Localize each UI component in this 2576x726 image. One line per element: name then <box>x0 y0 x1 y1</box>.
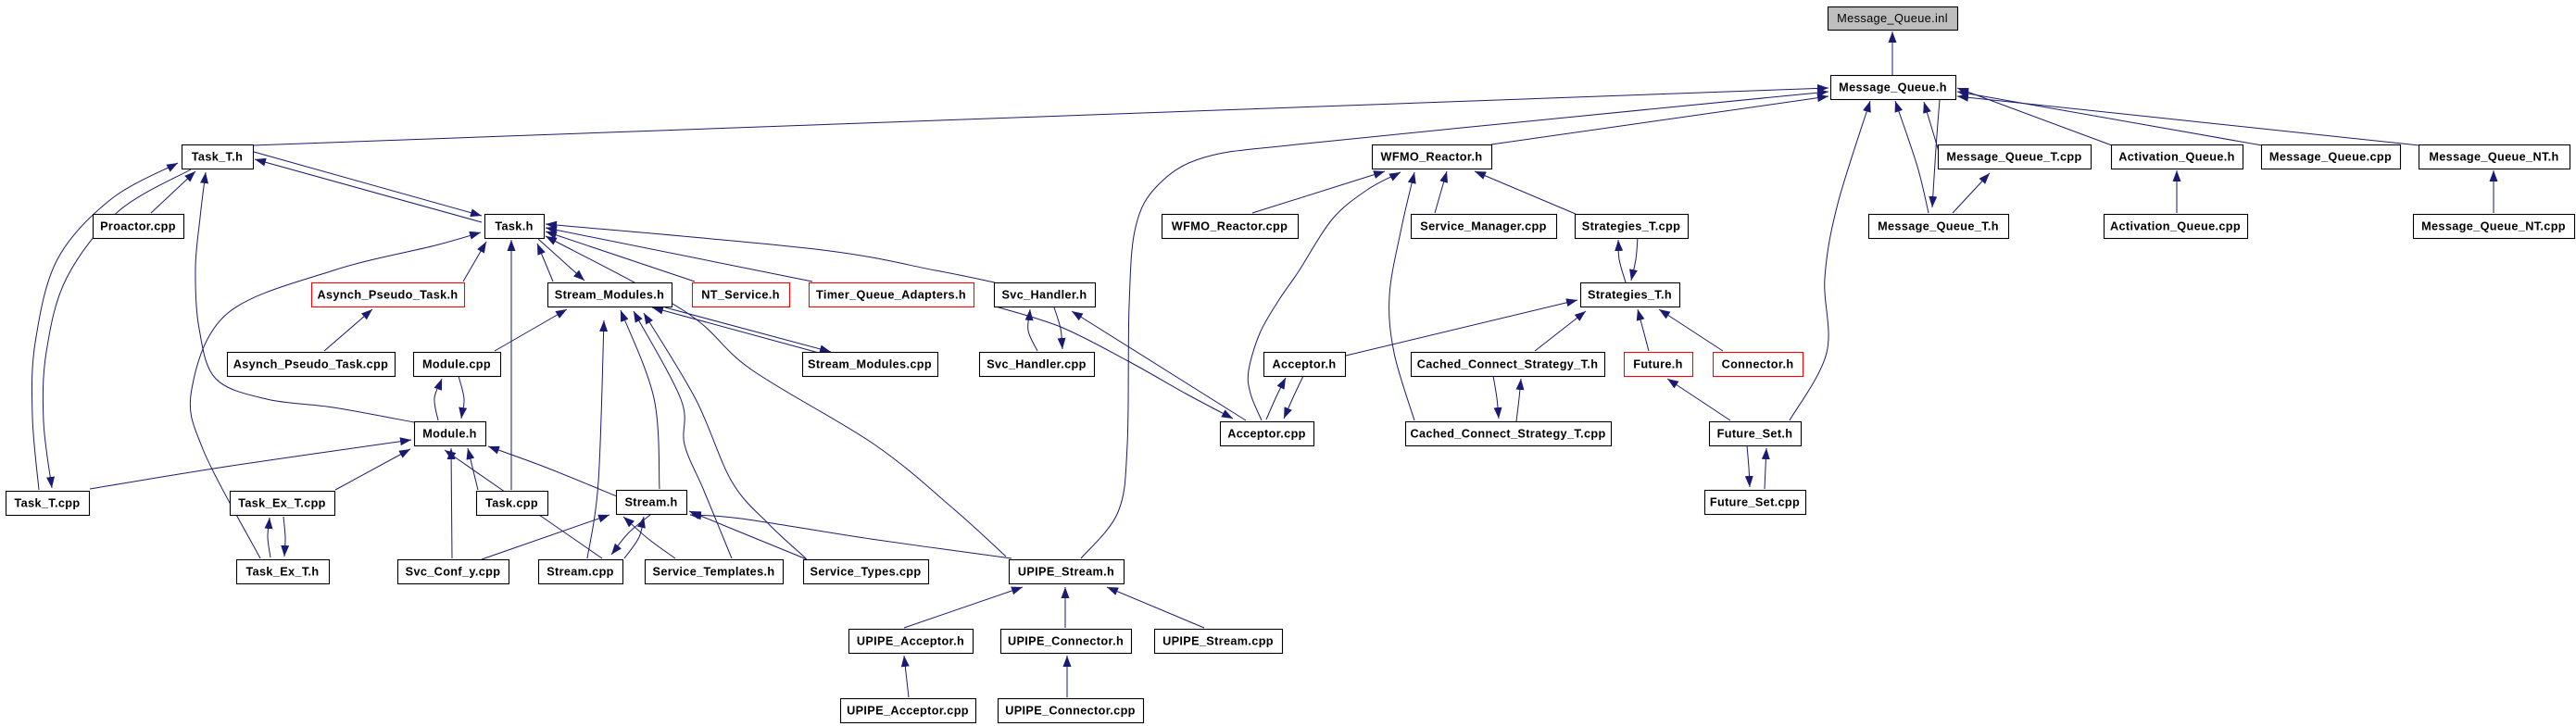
svg-text:Cached_Connect_Strategy_T.h: Cached_Connect_Strategy_T.h <box>1417 358 1599 371</box>
node Message_Queue.inl <box>1828 7 1958 31</box>
svg-text:Module.cpp: Module.cpp <box>422 358 491 371</box>
svg-text:Future.h: Future.h <box>1633 358 1683 371</box>
svg-text:Service_Templates.h: Service_Templates.h <box>653 566 775 579</box>
svg-text:Svc_Handler.h: Svc_Handler.h <box>1002 289 1087 302</box>
wire Task.cpp to Module.h <box>468 448 478 490</box>
wire Service_Types.cpp to Stream.h <box>689 511 807 559</box>
svg-text:Proactor.cpp: Proactor.cpp <box>100 220 176 233</box>
node Asynch_Pseudo_Task.h <box>312 283 465 307</box>
node Service_Templates.h <box>646 560 784 584</box>
wire Timer_Queue_Adapters.h to Task.h <box>546 228 812 282</box>
wire Cached pair B <box>1516 379 1521 421</box>
node Future_Set.h <box>1710 422 1802 446</box>
wire Message_Queue_NT.cpp to Message_Queue_NT.h <box>2493 170 2494 213</box>
wire Cached_Connect_Strategy_T.cpp to WFMO_Reactor.h <box>1389 172 1414 420</box>
wire Task_Ex_T.h to Task.h <box>190 232 481 558</box>
wire Stream_Modules.h pair to Task.h <box>537 244 553 282</box>
svg-text:Future_Set.h: Future_Set.h <box>1717 428 1793 441</box>
node NT_Service.h <box>693 283 790 307</box>
svg-text:UPIPE_Acceptor.h: UPIPE_Acceptor.h <box>857 635 964 648</box>
wire Task_T.cpp to Module.h <box>90 440 411 489</box>
svg-text:Strategies_T.cpp: Strategies_T.cpp <box>1582 220 1680 233</box>
node Stream_Modules.h <box>548 283 672 307</box>
svg-text:Task_Ex_T.h: Task_Ex_T.h <box>245 566 319 579</box>
svg-text:Module.h: Module.h <box>422 428 476 441</box>
wire Message_Queue_T.h to Message_Queue_T.cpp <box>1953 173 1990 213</box>
wire Svc_Handler.h to Acceptor.cpp <box>996 307 1233 419</box>
wire Svc_Handler.h to Svc_Handler.cpp <box>1054 307 1062 349</box>
node UPIPE_Connector.cpp <box>999 699 1144 723</box>
wire Task_Ex_T.h pair to Task_Ex_T.cpp <box>268 518 270 557</box>
svg-text:Task_Ex_T.cpp: Task_Ex_T.cpp <box>238 497 326 510</box>
svg-text:UPIPE_Stream.h: UPIPE_Stream.h <box>1018 566 1114 579</box>
node Proactor.cpp <box>94 215 184 239</box>
wire Proactor.cpp to Task_T.h <box>151 171 195 213</box>
node UPIPE_Acceptor.cpp <box>841 699 976 723</box>
wire Task_T.h to Task_T.cpp <box>43 169 191 488</box>
node Message_Queue.cpp <box>2262 145 2401 169</box>
svg-text:Task_T.cpp: Task_T.cpp <box>15 497 81 510</box>
node Service_Types.cpp <box>804 560 929 584</box>
svg-text:Task.h: Task.h <box>495 220 533 233</box>
node Module.cpp <box>414 353 501 377</box>
wire Task_T.h to Message_Queue.h <box>252 88 1828 145</box>
node Cached_Connect_Strategy_T.h <box>1412 353 1605 377</box>
wire Svc_Conf_y.cpp to Stream.h <box>482 515 609 559</box>
node Service_Manager.cpp <box>1412 215 1557 239</box>
node Acceptor.cpp <box>1221 422 1314 446</box>
node Task_Ex_T.h <box>237 560 330 584</box>
node Message_Queue_NT.cpp <box>2414 215 2575 239</box>
svg-text:Message_Queue_T.h: Message_Queue_T.h <box>1878 220 1999 233</box>
wire WFMO_Reactor.h to Message_Queue.h <box>1491 96 1828 144</box>
wire Svc_Conf_y.cpp to Module.h <box>451 448 452 558</box>
wire Task_Ex_T.cpp to Module.h <box>335 449 410 490</box>
svg-text:Acceptor.cpp: Acceptor.cpp <box>1227 428 1306 441</box>
wire Module.h pair to Module.cpp <box>434 379 442 420</box>
wire Service_Types.cpp to Stream_Modules.h <box>644 313 806 558</box>
svg-text:Service_Manager.cpp: Service_Manager.cpp <box>1420 220 1546 233</box>
node Strategies_T.h <box>1581 283 1680 307</box>
wire Stream.h to Stream_Modules.h <box>621 310 660 489</box>
node Task_T.h <box>182 145 254 169</box>
wire Svc_Handler.cpp to Svc_Handler.h <box>1028 309 1037 351</box>
wire Message_Queue_T.h to Message_Queue.h <box>1895 101 1929 213</box>
node Future_Set.cpp <box>1705 491 1806 515</box>
svg-text:Acceptor.h: Acceptor.h <box>1272 358 1336 371</box>
svg-text:Svc_Handler.cpp: Svc_Handler.cpp <box>986 358 1087 371</box>
node Timer_Queue_Adapters.h <box>810 283 974 307</box>
wire Message_Queue.h to Message_Queue_T.h <box>1932 100 1940 207</box>
svg-text:Future_Set.cpp: Future_Set.cpp <box>1710 496 1800 509</box>
svg-text:UPIPE_Stream.cpp: UPIPE_Stream.cpp <box>1162 635 1274 648</box>
wire UPIPE_Stream.cpp to UPIPE_Stream.h <box>1107 587 1204 628</box>
wire Module.cpp pair to Module.h <box>459 376 464 419</box>
node Strategies_T.cpp <box>1576 215 1689 239</box>
svg-text:Message_Queue.cpp: Message_Queue.cpp <box>2269 151 2392 164</box>
wire Acceptor pair B <box>1284 376 1303 419</box>
node Cached_Connect_Strategy_T.cpp <box>1406 422 1612 446</box>
svg-text:Timer_Queue_Adapters.h: Timer_Queue_Adapters.h <box>816 289 966 302</box>
node Svc_Handler.cpp <box>980 353 1095 377</box>
node UPIPE_Acceptor.h <box>849 630 974 654</box>
wire Stream.cpp to Stream_Modules.h <box>587 320 604 558</box>
node Message_Queue.h <box>1831 76 1956 100</box>
wire Asynch_Pseudo_Task.cpp to Asynch_Pseudo_Task.h <box>324 309 372 351</box>
wire Module.h to Task_T.h <box>195 172 414 422</box>
wire Task_Ex_T.cpp pair to Task_Ex_T.h <box>283 517 285 557</box>
node Message_Queue_T.cpp <box>1939 145 2092 169</box>
svg-text:Service_Types.cpp: Service_Types.cpp <box>810 566 922 579</box>
svg-text:Message_Queue.h: Message_Queue.h <box>1839 81 1947 94</box>
wire Strategies_T.cpp to Strategies_T.h pair A <box>1618 240 1626 282</box>
node Svc_Conf_y.cpp <box>398 560 509 584</box>
wire Acceptor.cpp to WFMO_Reactor.h <box>1248 172 1401 420</box>
node Module.h <box>415 422 486 446</box>
wire Connector.h to Strategies_T.h <box>1659 309 1723 351</box>
node Stream_Modules.cpp <box>803 353 938 377</box>
wire Task.h pair to Stream_Modules.h <box>538 239 584 281</box>
svg-text:Activation_Queue.cpp: Activation_Queue.cpp <box>2110 220 2241 233</box>
wire Future_Set.h to Message_Queue.h <box>1790 101 1870 420</box>
node Message_Queue_NT.h <box>2419 145 2570 169</box>
svg-text:UPIPE_Acceptor.cpp: UPIPE_Acceptor.cpp <box>847 705 969 718</box>
svg-text:Stream.h: Stream.h <box>624 496 677 509</box>
wire Stream.h to Module.h <box>488 446 617 496</box>
svg-text:Svc_Conf_y.cpp: Svc_Conf_y.cpp <box>406 566 501 579</box>
svg-text:Task_T.h: Task_T.h <box>192 151 243 164</box>
svg-text:WFMO_Reactor.h: WFMO_Reactor.h <box>1381 151 1483 164</box>
wire Future.h to Strategies_T.h <box>1638 309 1649 351</box>
node Svc_Handler.h <box>995 283 1096 307</box>
wire UPIPE_Connector.h to UPIPE_Stream.h <box>1064 587 1066 628</box>
node WFMO_Reactor.cpp <box>1162 215 1299 239</box>
node Message_Queue_T.h <box>1869 215 2009 239</box>
node Task.h <box>485 215 545 239</box>
node Stream.cpp <box>539 560 623 584</box>
svg-text:Cached_Connect_Strategy_T.cpp: Cached_Connect_Strategy_T.cpp <box>1410 428 1605 441</box>
wire Acceptor.h to Strategies_T.h <box>1346 300 1577 356</box>
wire Svc_Handler.h to Task.h <box>546 224 995 282</box>
wire Message_Queue_T.cpp to Message_Queue.h <box>1924 102 1943 167</box>
node WFMO_Reactor.h <box>1373 145 1492 169</box>
wire Strategies_T.cpp to WFMO_Reactor.h <box>1475 171 1576 214</box>
svg-text:Message_Queue_NT.cpp: Message_Queue_NT.cpp <box>2421 220 2566 233</box>
svg-text:Connector.h: Connector.h <box>1722 358 1794 371</box>
wire Future_Set.h to Future.h <box>1667 379 1730 420</box>
wire WFMO_Reactor.cpp to WFMO_Reactor.h <box>1252 171 1385 213</box>
wire Stream_Modules.cpp pair to Stream_Modules.h <box>652 307 819 353</box>
svg-text:Stream.cpp: Stream.cpp <box>547 566 614 579</box>
wire Future_Set pair B <box>1765 448 1766 489</box>
wire Activation_Queue.cpp to Activation_Queue.h <box>2176 170 2178 213</box>
node Asynch_Pseudo_Task.cpp <box>228 353 396 377</box>
wire Service_Templates.h to Stream.h <box>623 517 675 558</box>
node Stream.h <box>617 491 687 515</box>
node UPIPE_Connector.h <box>1001 630 1132 654</box>
svg-text:Asynch_Pseudo_Task.h: Asynch_Pseudo_Task.h <box>317 289 458 302</box>
wire Cached_Connect_Strategy_T.h to Strategies_T.h <box>1535 311 1586 351</box>
wire Service_Manager.cpp to WFMO_Reactor.h <box>1435 171 1447 213</box>
wire Task_T.h pair to Task.h <box>254 152 482 216</box>
svg-text:Strategies_T.h: Strategies_T.h <box>1588 289 1672 302</box>
svg-text:Stream_Modules.cpp: Stream_Modules.cpp <box>808 358 932 371</box>
wire Stream.h pair to Stream.cpp <box>611 515 650 555</box>
wire Task.h pair to Task_T.h <box>255 159 482 222</box>
wire Message_Queue_NT.h to Message_Queue.h <box>1957 96 2419 145</box>
svg-text:Stream_Modules.h: Stream_Modules.h <box>555 289 664 302</box>
node UPIPE_Stream.h <box>1010 560 1125 584</box>
wire Strategies_T.cpp to Strategies_T.h pair B <box>1631 237 1638 281</box>
wire UPIPE_Stream.h to Task.h <box>546 236 1006 557</box>
svg-text:Activation_Queue.h: Activation_Queue.h <box>2118 151 2234 164</box>
node Activation_Queue.cpp <box>2105 215 2248 239</box>
wire UPIPE_Acceptor.cpp to UPIPE_Acceptor.h <box>904 656 909 697</box>
wire UPIPE_Acceptor.h to UPIPE_Stream.h <box>904 587 1023 628</box>
svg-text:Message_Queue.inl: Message_Queue.inl <box>1837 11 1948 25</box>
svg-text:Task.cpp: Task.cpp <box>485 497 538 510</box>
wire Acceptor.cpp to Svc_Handler.h <box>1072 311 1246 420</box>
wire Stream_Modules.h pair to Stream_Modules.cpp <box>665 307 831 352</box>
wire UPIPE_Stream.h to Stream.h <box>690 515 1012 558</box>
wire UPIPE_Connector.cpp to UPIPE_Connector.h <box>1066 656 1068 697</box>
wire Message_Queue.cpp to Message_Queue.h <box>1957 92 2262 145</box>
svg-text:Message_Queue_NT.h: Message_Queue_NT.h <box>2429 151 2558 164</box>
wire Message_Queue.h to Message_Queue.inl <box>1891 31 1893 75</box>
wire Future_Set pair A <box>1747 445 1750 487</box>
node Future.h <box>1625 353 1693 377</box>
svg-text:UPIPE_Connector.cpp: UPIPE_Connector.cpp <box>1005 705 1136 718</box>
svg-text:UPIPE_Connector.h: UPIPE_Connector.h <box>1008 635 1124 648</box>
node Task_T.cpp <box>6 492 90 516</box>
svg-text:WFMO_Reactor.cpp: WFMO_Reactor.cpp <box>1172 220 1288 233</box>
node Task.cpp <box>477 492 548 516</box>
wire Stream.cpp to Module.h <box>445 450 602 558</box>
node Connector.h <box>1714 353 1803 377</box>
wire Cached pair A <box>1493 376 1499 419</box>
wire Module.cpp to Stream_Modules.h <box>495 309 567 351</box>
wire NT_Service.h to Task.h <box>546 232 695 282</box>
svg-text:NT_Service.h: NT_Service.h <box>701 289 780 302</box>
wire UPIPE_Stream.h to Message_Queue.h <box>1081 92 1828 558</box>
svg-text:Message_Queue_T.cpp: Message_Queue_T.cpp <box>1946 151 2081 164</box>
wire Asynch_Pseudo_Task.h to Task.h <box>463 242 486 282</box>
node UPIPE_Stream.cpp <box>1155 630 1283 654</box>
node Acceptor.h <box>1264 353 1346 377</box>
wire Service_Templates.h to Stream_Modules.h <box>634 311 732 558</box>
wire Acceptor pair A <box>1266 378 1286 419</box>
node Activation_Queue.h <box>2112 145 2243 169</box>
svg-text:Asynch_Pseudo_Task.cpp: Asynch_Pseudo_Task.cpp <box>233 358 389 371</box>
wire Stream.cpp pair to Stream.h <box>624 517 644 558</box>
wire Task.cpp to Task.h <box>510 240 512 490</box>
wire Activation_Queue.h to Message_Queue.h <box>1957 88 2112 145</box>
node Task_Ex_T.cpp <box>231 492 335 516</box>
wire Task_T.cpp to Task_T.h <box>31 163 178 490</box>
